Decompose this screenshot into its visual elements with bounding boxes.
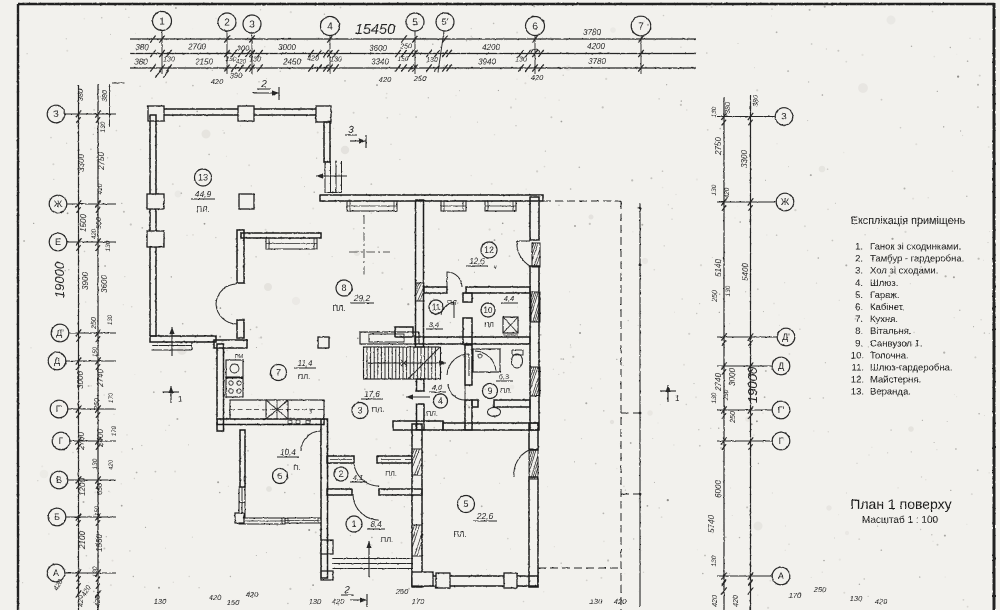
shower tray — [473, 349, 500, 372]
bath west wall lower — [465, 400, 472, 430]
bath inner wall west part — [472, 400, 478, 407]
svg-text:170: 170 — [112, 425, 118, 436]
svg-text:2: 2 — [224, 18, 230, 29]
room 12 workshop label — [481, 242, 497, 258]
svg-text:ПЛ.: ПЛ. — [332, 304, 345, 313]
svg-text:5140: 5140 — [714, 259, 723, 277]
svg-text:380: 380 — [78, 89, 85, 101]
border frame left — [17, 4, 19, 610]
veranda top wall columns — [148, 106, 164, 121]
svg-text:130: 130 — [426, 57, 438, 64]
svg-text:250: 250 — [399, 44, 412, 51]
svg-text:420: 420 — [211, 77, 224, 86]
east wall niche 1 — [532, 243, 540, 267]
svg-text:3000: 3000 — [76, 371, 85, 389]
veranda left wall — [150, 115, 156, 336]
svg-text:950: 950 — [96, 217, 103, 229]
room1 west wall blocks — [321, 540, 333, 554]
room12 entry door east — [517, 240, 530, 242]
svg-text:17,6: 17,6 — [364, 390, 380, 399]
room 10 label — [481, 303, 495, 317]
north wall window 1 — [347, 201, 397, 211]
svg-text:2100: 2100 — [78, 531, 87, 550]
svg-text:19000: 19000 — [745, 366, 760, 403]
veranda bottom wall — [150, 336, 216, 342]
svg-text:1500: 1500 — [79, 214, 88, 232]
axis circle 5 — [406, 13, 424, 31]
veranda steps arrow — [316, 175, 347, 177]
column at kitchen corner — [318, 337, 329, 348]
garage west wall niche 1 — [412, 449, 422, 475]
svg-text:Топочна.: Топочна. — [870, 350, 909, 361]
svg-text:7: 7 — [638, 22, 644, 33]
svg-text:А: А — [53, 568, 59, 578]
column at veranda corner — [239, 194, 254, 209]
room4 arrow — [406, 396, 430, 398]
svg-text:150: 150 — [93, 346, 99, 357]
svg-text:11.: 11. — [851, 363, 864, 374]
svg-text:ПЛ.: ПЛ. — [385, 471, 397, 478]
axis leader lines — [161, 31, 163, 75]
right axis circle Д' — [777, 328, 795, 346]
border frame right — [993, 3, 996, 610]
svg-text:130: 130 — [105, 240, 112, 251]
svg-text:380: 380 — [753, 95, 760, 107]
svg-text:250: 250 — [712, 290, 719, 303]
svg-text:ПЛ.: ПЛ. — [453, 530, 466, 539]
svg-text:Е: Е — [55, 237, 61, 247]
svg-text:Тамбур - гардеробна.: Тамбур - гардеробна. — [870, 254, 964, 265]
garage south wall posts — [436, 573, 450, 588]
ventilation hatch in wall — [416, 283, 424, 301]
room 4 sluice label — [434, 394, 448, 408]
svg-text:130: 130 — [711, 106, 718, 117]
svg-text:Д: Д — [54, 356, 60, 366]
entrance steps south — [332, 558, 413, 560]
left axis circle В — [50, 471, 68, 489]
svg-text:2150: 2150 — [194, 58, 213, 67]
svg-text:3780: 3780 — [588, 57, 606, 66]
veranda room13 top wall — [150, 109, 330, 115]
svg-text:44,9: 44,9 — [195, 189, 212, 199]
svg-text:1: 1 — [675, 394, 680, 403]
garage north wall — [443, 423, 538, 430]
living room north-west wall — [241, 233, 321, 238]
svg-text:3.: 3. — [855, 266, 863, 277]
svg-text:Гараж.: Гараж. — [870, 290, 899, 301]
svg-text:3: 3 — [348, 125, 354, 136]
hall to room12 wall — [416, 200, 424, 347]
svg-text:ПЛ.: ПЛ. — [372, 405, 384, 414]
bath west wall upper — [465, 345, 472, 385]
room2 north door arc — [354, 461, 379, 486]
wall below stairs upper — [417, 379, 425, 391]
garage west wall niche 2 — [412, 525, 422, 556]
right dimension chain lines — [723, 97, 725, 610]
svg-text:420: 420 — [95, 595, 102, 607]
svg-text:Майстерня.: Майстерня. — [870, 375, 921, 386]
svg-text:130: 130 — [330, 57, 342, 64]
svg-text:Санвузол 1.: Санвузол 1. — [870, 338, 923, 349]
svg-text:2400: 2400 — [96, 429, 105, 448]
svg-text:130: 130 — [711, 392, 718, 403]
svg-text:420: 420 — [97, 183, 104, 194]
svg-text:3340: 3340 — [371, 58, 389, 67]
svg-text:ПЛ.: ПЛ. — [426, 411, 438, 418]
svg-text:5740: 5740 — [707, 515, 716, 533]
room6 bay window south — [239, 518, 285, 524]
window in north-west wall — [266, 238, 317, 249]
svg-text:250: 250 — [413, 74, 427, 83]
section mark 1 left — [163, 391, 179, 393]
garage south wall — [412, 576, 538, 586]
boiler symbol room10 — [503, 317, 518, 333]
svg-text:Вітальня.: Вітальня. — [870, 326, 912, 337]
kitchen appliances stove — [226, 378, 243, 397]
svg-text:Д': Д' — [56, 328, 64, 338]
border frame top — [18, 3, 994, 6]
svg-text:ПЛ: ПЛ — [484, 322, 494, 329]
east outer wall upper — [530, 197, 539, 240]
svg-text:3000: 3000 — [728, 368, 737, 386]
svg-text:Веранда.: Веранда. — [870, 387, 911, 398]
room2 south wall west — [327, 489, 352, 495]
veranda right wall upper — [324, 122, 330, 162]
left dimension chain lines — [78, 85, 80, 610]
svg-text:2750: 2750 — [97, 152, 106, 171]
svg-text:130: 130 — [100, 121, 107, 132]
counter small marks — [288, 421, 292, 424]
right axis circle Г' — [772, 401, 790, 419]
svg-text:250: 250 — [94, 398, 101, 411]
svg-text:3900: 3900 — [81, 272, 90, 290]
svg-text:170: 170 — [789, 591, 802, 600]
svg-text:2: 2 — [343, 585, 350, 596]
room2 south door arc — [353, 494, 379, 520]
porch entry arrow — [171, 327, 173, 356]
wall below stairs lower — [417, 404, 425, 430]
veranda entrance steps east — [324, 161, 326, 193]
room2 north wall east — [377, 456, 412, 463]
axis circle 7 — [631, 16, 651, 36]
svg-text:3,4: 3,4 — [429, 320, 439, 329]
svg-text:4.: 4. — [855, 278, 863, 289]
wc sink — [488, 408, 501, 417]
svg-text:4200: 4200 — [482, 43, 500, 52]
room2 north wall west — [327, 456, 354, 463]
svg-text:3: 3 — [249, 20, 255, 31]
main north wall — [320, 195, 543, 201]
room12 south wall east part — [466, 287, 530, 293]
room 6 cabinet label — [273, 469, 288, 484]
svg-text:Кабінет.: Кабінет. — [870, 302, 905, 313]
east wall niche 4 — [529, 449, 538, 479]
svg-text:170: 170 — [412, 597, 425, 606]
svg-text:130: 130 — [154, 597, 167, 606]
svg-text:390: 390 — [230, 71, 243, 80]
north wall window 2 — [441, 201, 466, 211]
svg-text:380: 380 — [135, 43, 149, 52]
east wall niche 2 — [531, 292, 540, 322]
svg-text:Хол зі сходами.: Хол зі сходами. — [870, 266, 938, 277]
svg-text:Ганок зі сходинками.: Ганок зі сходинками. — [870, 242, 961, 253]
right axis circle Г — [772, 432, 790, 450]
svg-text:4: 4 — [438, 396, 443, 406]
svg-text:2.: 2. — [855, 254, 863, 265]
svg-text:2740: 2740 — [96, 369, 105, 388]
svg-text:Г': Г' — [778, 405, 785, 415]
right axis circle З — [775, 108, 793, 126]
garage south-west corner block — [412, 572, 433, 586]
svg-text:7.: 7. — [855, 314, 863, 325]
svg-text:2450: 2450 — [282, 58, 301, 67]
svg-text:13: 13 — [198, 173, 208, 183]
svg-text:380: 380 — [725, 102, 732, 114]
svg-text:130: 130 — [711, 184, 718, 195]
wall between rooms 11 and 10 upper — [463, 293, 472, 302]
svg-text:В: В — [56, 475, 62, 485]
svg-text:ПЛ·: ПЛ· — [447, 300, 459, 307]
svg-text:2740: 2740 — [714, 373, 723, 392]
svg-text:10: 10 — [484, 306, 493, 315]
svg-text:Б: Б — [54, 512, 60, 522]
svg-text:2: 2 — [260, 79, 267, 90]
left axis circle Б — [48, 508, 66, 526]
svg-text:7: 7 — [276, 368, 281, 378]
room6 west wall — [240, 430, 245, 487]
svg-text:250: 250 — [723, 389, 730, 401]
axis circle 3 — [243, 15, 261, 33]
svg-text:Д: Д — [778, 361, 784, 371]
garage east wall upper — [529, 423, 538, 450]
section mark 1 right — [660, 390, 676, 392]
living room west wall upper — [237, 230, 244, 283]
svg-text:15450: 15450 — [355, 22, 395, 38]
garage east wall lower — [529, 477, 538, 587]
left axis circle Е — [49, 233, 67, 251]
svg-text:420: 420 — [246, 590, 259, 599]
svg-text:А: А — [778, 571, 784, 581]
svg-text:10,4: 10,4 — [280, 448, 296, 457]
room6 bay window west — [239, 487, 245, 518]
svg-text:1200: 1200 — [78, 478, 87, 496]
wall between rooms 11 and 10 lower — [463, 318, 472, 344]
room12 south wall west part — [424, 287, 447, 293]
entrance arrow — [368, 541, 370, 577]
svg-text:130: 130 — [515, 57, 527, 64]
svg-text:5: 5 — [463, 499, 468, 509]
svg-text:420: 420 — [712, 595, 719, 607]
hall south wall — [393, 421, 443, 430]
svg-text:170: 170 — [109, 392, 115, 403]
kitchen appliances fridge — [226, 360, 243, 377]
room 8 living label — [336, 280, 352, 296]
svg-text:5400: 5400 — [741, 263, 750, 281]
svg-text:3940: 3940 — [478, 58, 496, 67]
svg-text:Шлюз.: Шлюз. — [870, 278, 898, 289]
svg-text:6000: 6000 — [714, 480, 723, 498]
svg-text:650: 650 — [97, 483, 104, 495]
svg-text:З: З — [53, 109, 58, 119]
left axis circle Г — [52, 432, 70, 450]
svg-text:12: 12 — [484, 245, 494, 255]
staircase direction arrow — [368, 362, 446, 364]
svg-text:130: 130 — [108, 314, 114, 325]
svg-text:ПЛ.: ПЛ. — [500, 388, 512, 395]
svg-text:250: 250 — [730, 411, 737, 424]
kitchen counter hatch square — [266, 400, 288, 419]
room2 south wall east — [379, 489, 422, 495]
axis circle 1 — [153, 12, 172, 31]
svg-text:300: 300 — [237, 44, 250, 53]
right chain bottom ticks — [721, 587, 726, 594]
svg-text:3600: 3600 — [100, 275, 109, 293]
scan speckle noise — [644, 21, 645, 22]
svg-text:2700: 2700 — [77, 432, 86, 451]
room 11 label — [429, 300, 443, 314]
room6 bay corner block — [235, 513, 244, 523]
svg-text:4,1: 4,1 — [353, 473, 363, 482]
rooms 11 and 10 south wall — [415, 337, 530, 344]
svg-text:З: З — [781, 112, 786, 122]
right axis circle Д — [772, 357, 790, 375]
svg-text:1550: 1550 — [95, 534, 104, 552]
svg-text:420: 420 — [614, 597, 627, 606]
svg-text:420: 420 — [209, 593, 222, 602]
svg-text:13.: 13. — [851, 387, 864, 398]
svg-text:1: 1 — [159, 17, 165, 28]
svg-text:8.: 8. — [855, 326, 863, 337]
hall door to corridor — [468, 354, 470, 376]
svg-text:Г: Г — [779, 436, 784, 446]
svg-text:22,6: 22,6 — [476, 511, 494, 521]
living room center lines — [363, 215, 365, 278]
svg-text:ПЛ.: ПЛ. — [298, 372, 310, 381]
svg-text:1.: 1. — [855, 242, 863, 253]
left axis circle Д' — [51, 324, 69, 342]
svg-text:П.: П. — [293, 463, 300, 472]
terrace dashed outline — [543, 200, 621, 202]
svg-text:Г': Г' — [56, 404, 63, 414]
svg-text:ПЛ.: ПЛ. — [381, 535, 393, 544]
svg-text:Ж: Ж — [781, 197, 790, 207]
left axis circle Ж — [49, 195, 67, 213]
axis circle 2 — [218, 13, 236, 31]
svg-text:5: 5 — [412, 18, 418, 29]
toilet — [512, 354, 523, 368]
svg-text:Г: Г — [59, 436, 64, 446]
svg-text:11: 11 — [432, 303, 441, 312]
svg-text:250: 250 — [395, 587, 409, 596]
veranda left wall columns — [147, 194, 164, 209]
svg-text:6: 6 — [277, 471, 282, 481]
room 9 bathroom label — [483, 384, 498, 399]
room6 east wall — [321, 419, 328, 578]
svg-text:420: 420 — [875, 597, 888, 606]
svg-text:250: 250 — [91, 317, 98, 330]
left axis circle З — [47, 105, 65, 123]
svg-text:380: 380 — [134, 58, 148, 67]
svg-text:380: 380 — [102, 90, 109, 102]
svg-text:130: 130 — [163, 57, 175, 64]
terrace edge line — [639, 203, 641, 607]
svg-text:4,0: 4,0 — [432, 383, 443, 392]
svg-text:10.: 10. — [851, 350, 864, 361]
right axis circle Ж — [776, 193, 794, 211]
svg-text:Кухня.: Кухня. — [870, 314, 898, 325]
room 5 garage label — [458, 496, 475, 513]
svg-text:Масштаб 1 : 100: Масштаб 1 : 100 — [862, 514, 939, 526]
svg-text:3300: 3300 — [77, 154, 86, 172]
left axis circle Г' — [50, 400, 68, 418]
axis circle 4 — [321, 17, 340, 36]
kitchen west outer wall — [217, 344, 224, 431]
east outer wall lower — [530, 266, 539, 430]
room6 south wall — [285, 518, 321, 523]
svg-text:12,6: 12,6 — [469, 257, 485, 266]
svg-text:420: 420 — [724, 187, 731, 198]
svg-text:420: 420 — [307, 56, 319, 63]
svg-text:ПЛ.: ПЛ. — [196, 205, 209, 214]
bath inner wall east part — [494, 400, 530, 407]
svg-text:130: 130 — [92, 458, 99, 469]
svg-text:ч: ч — [493, 265, 496, 271]
room 2 tambour label — [334, 467, 348, 481]
svg-text:130: 130 — [590, 597, 603, 606]
staircase — [364, 347, 441, 379]
svg-text:ПМ: ПМ — [235, 354, 244, 360]
svg-text:420: 420 — [379, 75, 392, 84]
svg-text:5.: 5. — [855, 290, 863, 301]
svg-text:420: 420 — [92, 228, 98, 239]
svg-text:6: 6 — [532, 22, 538, 33]
veranda porch steps south — [152, 345, 192, 347]
svg-text:9.: 9. — [855, 338, 863, 349]
east wall niche 3 — [530, 367, 540, 396]
svg-text:130: 130 — [92, 566, 99, 577]
room 13 veranda label — [195, 169, 212, 186]
svg-text:3: 3 — [357, 406, 362, 416]
door room10 leaf and arc — [453, 302, 455, 318]
svg-text:5': 5' — [442, 17, 449, 27]
svg-text:420: 420 — [236, 60, 247, 66]
left axis circle А — [47, 564, 65, 582]
stair landing window band — [360, 332, 419, 344]
svg-text:250: 250 — [813, 585, 827, 594]
veranda double door arcs — [216, 284, 237, 304]
kitchen top wall — [214, 340, 247, 348]
svg-text:420: 420 — [332, 597, 345, 606]
svg-text:29,2: 29,2 — [353, 293, 371, 303]
right axis circle А — [772, 567, 790, 585]
svg-text:2700: 2700 — [187, 43, 206, 52]
bath door arc — [448, 399, 465, 401]
svg-text:11,4: 11,4 — [298, 359, 314, 368]
hall pier — [395, 327, 413, 337]
room 3 hall label — [352, 403, 368, 419]
svg-text:130: 130 — [850, 594, 863, 603]
svg-text:Шлюз-гардеробна.: Шлюз-гардеробна. — [870, 363, 953, 374]
room12 door leaf and arc — [446, 272, 448, 287]
jog symbol near axis 6 — [531, 49, 540, 54]
svg-text:130: 130 — [725, 285, 732, 296]
svg-text:y: y — [310, 408, 313, 414]
living room west wall lower — [237, 320, 244, 338]
svg-text:150: 150 — [95, 505, 101, 516]
axis circle 5' — [436, 13, 454, 31]
svg-text:12.: 12. — [851, 375, 864, 386]
left chain bottom ticks — [76, 590, 81, 597]
